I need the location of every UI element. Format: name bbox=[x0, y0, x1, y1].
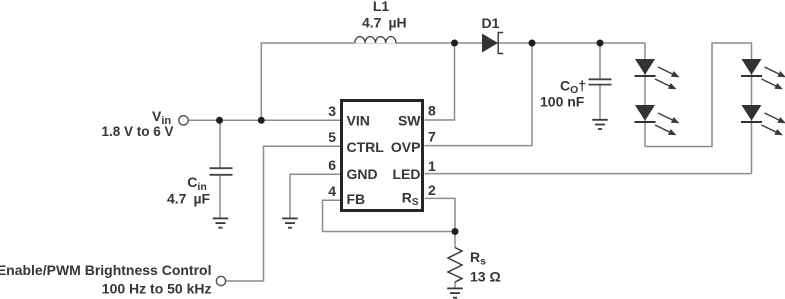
svg-text:2: 2 bbox=[428, 182, 436, 198]
svg-text:D1: D1 bbox=[482, 15, 500, 31]
svg-text:4.7µH: 4.7µH bbox=[362, 14, 407, 30]
svg-text:6: 6 bbox=[328, 157, 336, 173]
svg-text:CTRL: CTRL bbox=[347, 139, 385, 155]
svg-text:100 nF: 100 nF bbox=[540, 94, 585, 110]
svg-text:3: 3 bbox=[328, 103, 336, 119]
svg-text:100 Hz to 50 kHz: 100 Hz to 50 kHz bbox=[102, 281, 212, 297]
svg-text:8: 8 bbox=[428, 103, 436, 119]
svg-text:4.7µF: 4.7µF bbox=[167, 191, 211, 207]
svg-text:4: 4 bbox=[328, 183, 336, 199]
svg-text:L1: L1 bbox=[373, 0, 390, 14]
svg-text:SW: SW bbox=[398, 113, 421, 129]
svg-text:13 Ω: 13 Ω bbox=[470, 269, 501, 285]
svg-text:1: 1 bbox=[428, 158, 436, 174]
svg-text:Enable/PWM Brightness Control: Enable/PWM Brightness Control bbox=[0, 262, 212, 278]
svg-text:5: 5 bbox=[328, 129, 336, 145]
svg-text:VIN: VIN bbox=[347, 113, 370, 129]
svg-text:FB: FB bbox=[347, 191, 366, 207]
svg-text:OVP: OVP bbox=[391, 139, 421, 155]
svg-text:GND: GND bbox=[347, 166, 378, 182]
svg-text:7: 7 bbox=[428, 129, 436, 145]
svg-text:1.8 V to 6 V: 1.8 V to 6 V bbox=[101, 124, 173, 139]
svg-text:LED: LED bbox=[393, 166, 421, 182]
svg-text:Rs: Rs bbox=[470, 249, 486, 268]
